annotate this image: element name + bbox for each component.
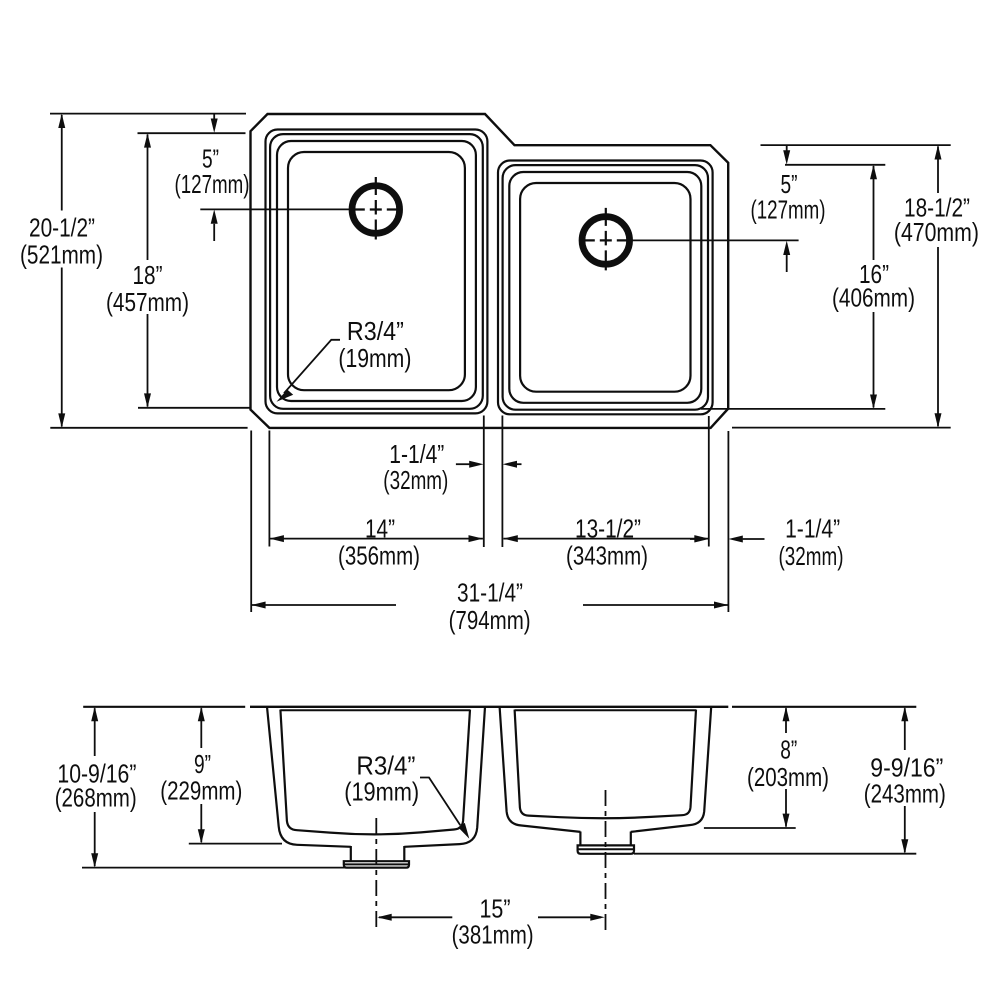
label R3/4in (19mm) bowl bottom radius (elevation) bbox=[344, 751, 469, 839]
dimension 5in (127mm) left bowl drain location bbox=[175, 114, 353, 241]
right bowl section outline bbox=[500, 707, 712, 832]
svg-text:14”: 14” bbox=[365, 514, 395, 544]
dimension 20-1/2in (521mm) left overall bbox=[20, 114, 248, 428]
svg-text:(229mm): (229mm) bbox=[160, 776, 242, 806]
svg-text:18”: 18” bbox=[133, 260, 163, 290]
right drain centerline bbox=[605, 790, 607, 930]
svg-text:(32mm): (32mm) bbox=[779, 541, 844, 571]
svg-text:(356mm): (356mm) bbox=[338, 541, 420, 571]
svg-text:(243mm): (243mm) bbox=[864, 779, 946, 809]
left drain hole (plan view) bbox=[350, 177, 402, 240]
svg-text:(19mm): (19mm) bbox=[344, 777, 419, 807]
svg-text:(343mm): (343mm) bbox=[566, 541, 648, 571]
dimension 18-1/2in (470mm) right overall bbox=[732, 145, 979, 428]
left bowl rim (plan view) bbox=[266, 130, 488, 414]
dimension 9-9/16in (243mm) right overall depth bbox=[634, 707, 946, 854]
svg-text:(32mm): (32mm) bbox=[383, 465, 448, 495]
dimension 13-1/2in (343mm) right bowl width bbox=[503, 416, 708, 571]
svg-text:(203mm): (203mm) bbox=[747, 762, 829, 792]
svg-text:(268mm): (268mm) bbox=[55, 783, 137, 813]
svg-text:31-1/4”: 31-1/4” bbox=[457, 578, 523, 608]
right bowl drain fitting (elevation) bbox=[578, 832, 634, 854]
dimension 31-1/4in (794mm) overall width bbox=[251, 431, 728, 636]
dimension 16in (406mm) right bowl length bbox=[701, 165, 915, 409]
counter / deck line (elevation) bbox=[83, 706, 916, 708]
sink deck outline (plan view) bbox=[251, 114, 729, 428]
dimension 1-1/4in (32mm) divider width bbox=[383, 416, 521, 548]
svg-text:(794mm): (794mm) bbox=[449, 605, 531, 635]
svg-text:(381mm): (381mm) bbox=[452, 920, 534, 950]
dimension 1-1/4in (32mm) right edge bbox=[690, 514, 844, 572]
svg-text:9”: 9” bbox=[194, 749, 211, 779]
left bowl drain fitting (elevation) bbox=[344, 846, 409, 868]
svg-text:(127mm): (127mm) bbox=[175, 169, 250, 199]
svg-text:R3/4”: R3/4” bbox=[347, 316, 404, 346]
svg-text:(406mm): (406mm) bbox=[832, 283, 915, 313]
dimension 9in (229mm) left bowl depth bbox=[160, 707, 282, 844]
svg-text:20-1/2”: 20-1/2” bbox=[29, 213, 95, 243]
svg-text:8”: 8” bbox=[780, 735, 797, 765]
svg-text:(19mm): (19mm) bbox=[338, 343, 411, 373]
svg-text:(521mm): (521mm) bbox=[20, 240, 103, 270]
dimension 5in (127mm) right bowl drain location bbox=[632, 145, 826, 272]
left bowl section outline bbox=[267, 707, 485, 847]
dimension 15in (381mm) drain spacing bbox=[377, 894, 604, 950]
left drain centerline bbox=[375, 818, 377, 930]
svg-text:1-1/4”: 1-1/4” bbox=[785, 514, 840, 544]
right drain hole (plan view) bbox=[580, 208, 632, 271]
right bowl rim (plan view) bbox=[498, 161, 713, 415]
svg-text:(470mm): (470mm) bbox=[894, 217, 979, 247]
svg-text:13-1/2”: 13-1/2” bbox=[575, 514, 641, 544]
dimension 14in (356mm) left bowl width bbox=[269, 431, 483, 571]
dimension 8in (203mm) right bowl depth bbox=[704, 707, 829, 828]
svg-text:(127mm): (127mm) bbox=[751, 195, 826, 225]
dimension 10-9/16in (268mm) left overall depth bbox=[55, 707, 408, 868]
svg-text:(457mm): (457mm) bbox=[106, 287, 189, 317]
label R3/4in (19mm) bowl corner radius (plan view) bbox=[277, 316, 412, 402]
dimension 18in (457mm) left bowl length bbox=[106, 133, 252, 408]
